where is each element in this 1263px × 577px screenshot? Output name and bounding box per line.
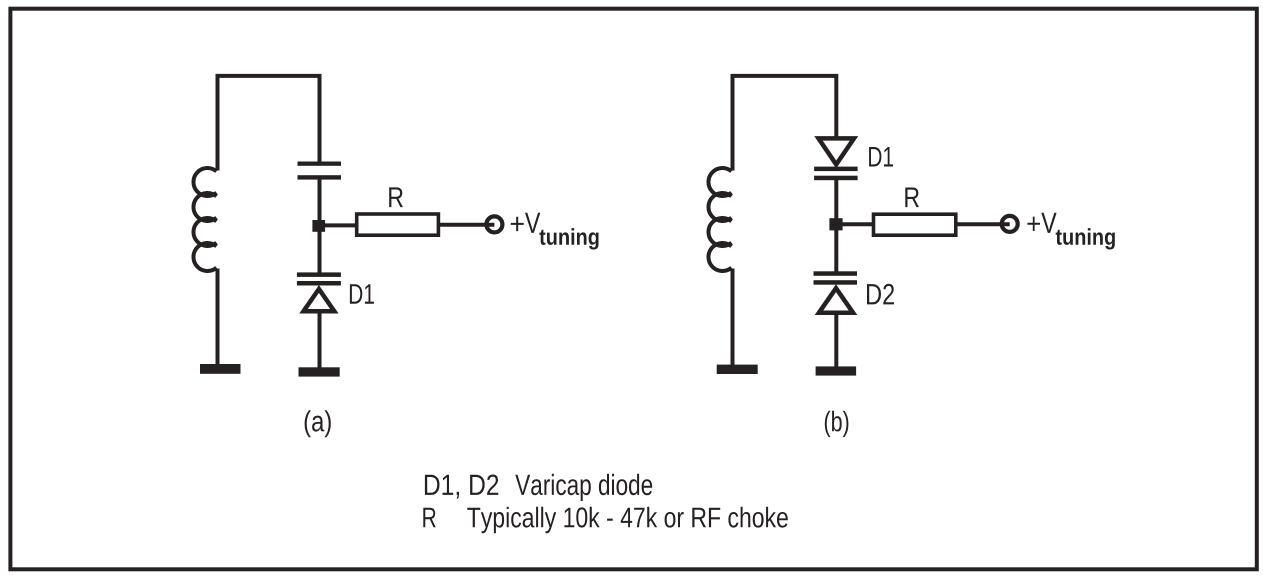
caption D1, D2 [425,475,498,499]
varicap D2 cathode bar 1 (b) [814,271,858,276]
wire: varicap D1 to ground (a) [318,311,322,368]
varicap D1 anode bar 2 (b) [814,176,858,181]
varicap D1 cathode bar 2 (a) [297,281,341,286]
varicap D1 anode bar 1 (b) [814,167,858,172]
ground under inductor (a) [200,364,241,374]
ground under varicap D1 (a) [299,367,340,376]
wire: inductor (a) to ground [216,269,220,366]
capacitor C plate 2 (a) [298,175,342,179]
terminal circle +Vtuning (b) [1002,216,1018,232]
resistor R (b) [874,214,956,235]
label + (a) [511,217,524,231]
label (a) [305,410,331,437]
label D1 (b) [869,147,893,167]
varicap D2 triangle (b) [819,288,853,313]
varicap D2 cathode bar 2 (b) [814,280,858,285]
wire: resistor to terminal (b) [955,222,1010,226]
resistor R (a) [357,214,439,235]
wire: node to varicap D2 (b) [834,229,838,272]
wire: node to varicap D1 (a) [318,230,322,273]
varicap D1 cathode bar 1 (a) [297,272,341,277]
inductor L (b) [708,168,731,271]
varicap D1 triangle (a) [304,289,335,311]
label D2 (b) [867,284,894,305]
capacitor C plate 1 (a) [298,162,342,166]
label (b) [825,411,849,437]
wire: node to resistor (b) [836,222,874,226]
wire: resistor to terminal (a) [438,223,494,227]
node junction (a) [312,220,325,232]
wire: top loop of tank circuit (a) [218,76,320,171]
ground under inductor (b) [717,365,758,374]
varicap D1 triangle (b) [819,138,855,164]
wire: varicap D2 to ground (b) [834,311,838,368]
inductor L (a) [193,168,216,271]
wire: node to resistor (a) [320,223,359,227]
caption R [423,508,436,528]
label + (b) [1027,217,1040,231]
wire: inductor (b) to ground [731,269,735,366]
label R (b) [905,188,919,208]
label R (a) [389,187,403,207]
label V (b) [1041,213,1056,233]
label V (a) [525,213,540,233]
ground under varicap D2 (b) [816,366,857,375]
wire: top loop of tank circuit (b) [733,76,837,171]
caption Varicap diode [515,474,652,501]
caption Typically 10k - 47k or RF choke [467,507,788,534]
wire: capacitor to node (a) [318,179,322,224]
label tuning (a) [539,228,598,249]
label tuning (b) [1056,228,1115,249]
label D1 (a) [350,284,374,304]
terminal circle +Vtuning (a) [486,216,502,232]
node junction (b) [829,218,842,230]
wire: varicap D1 to node (b) [834,180,838,222]
